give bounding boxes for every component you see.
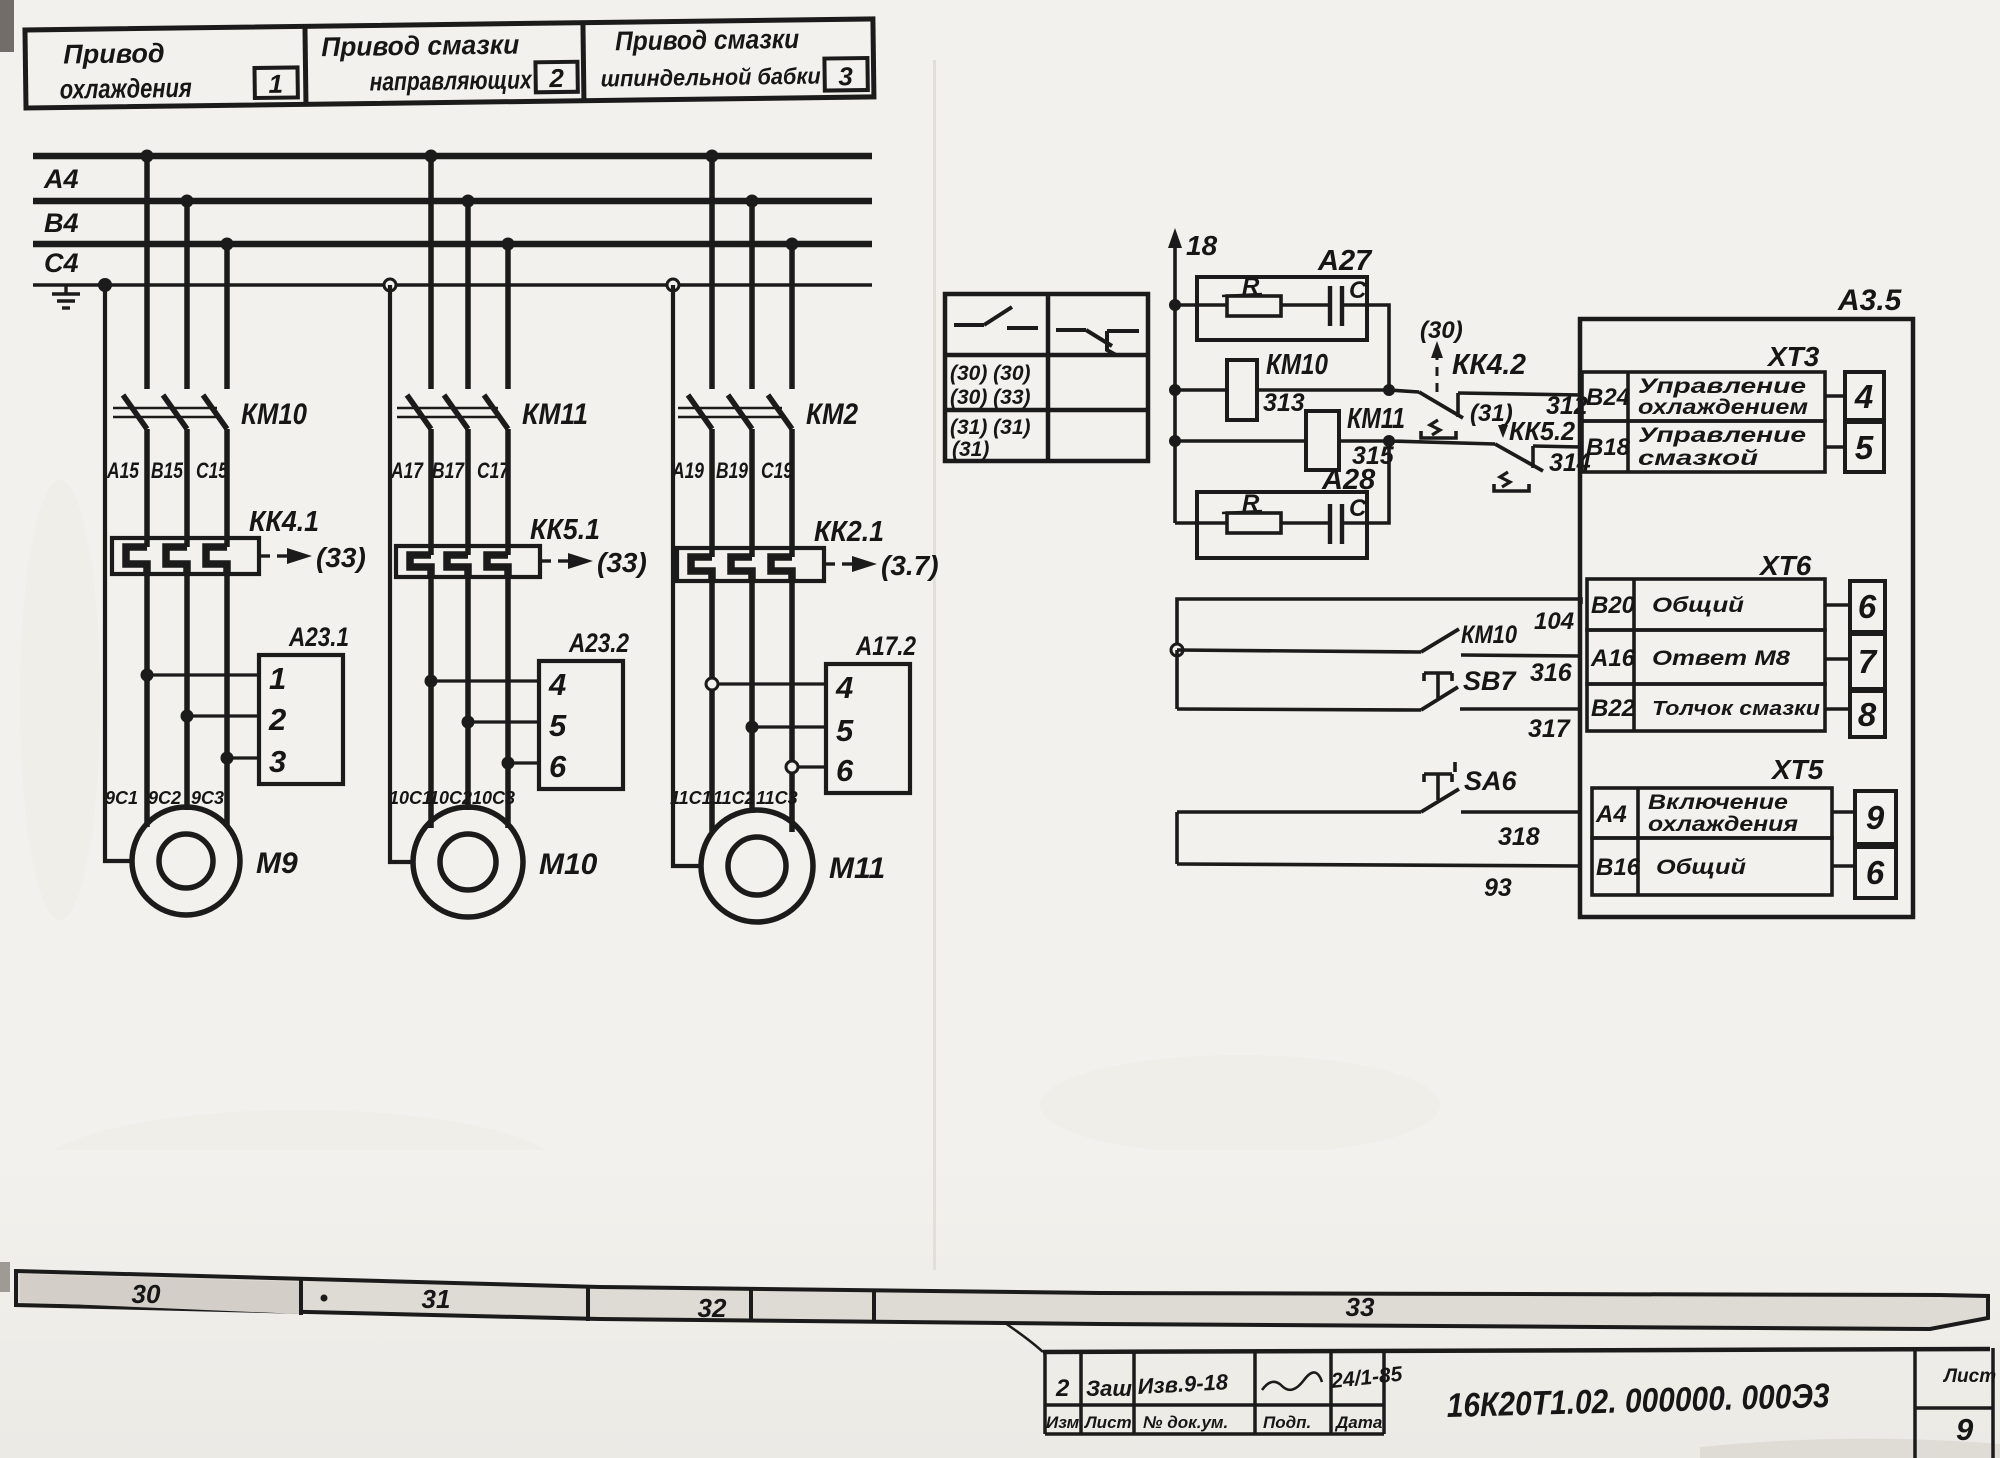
contact KK5.2 blade — [1495, 444, 1543, 471]
svg-text:Включение: Включение — [1648, 791, 1788, 814]
svg-text:SВ7: SВ7 — [1463, 666, 1518, 696]
svg-text:А28: А28 — [1321, 464, 1376, 496]
wire pole tap to А23.1 pin 1 — [147, 673, 259, 676]
motor М9 inner circle — [159, 834, 213, 888]
svg-text:2: 2 — [1055, 1375, 1070, 1402]
ground bus — [33, 283, 872, 287]
contact KK5.2 thermal release mark — [1500, 472, 1510, 487]
wire contact to overload pole B — [465, 429, 471, 555]
svg-text:смазкой: смазкой — [1638, 447, 1758, 470]
contact KK5.2 fixed post — [1531, 446, 1535, 468]
switch SA6 actuator — [1424, 762, 1455, 800]
A3.5 row А16 — [1587, 630, 1825, 684]
A3.5 row А4 — [1592, 788, 1832, 838]
pushbutton SB7 blade — [1421, 687, 1458, 710]
A3.5 row В24 — [1582, 372, 1825, 421]
ground symbol — [52, 285, 80, 308]
svg-text:10С3: 10С3 — [472, 788, 515, 808]
svg-text:охлаждения: охлаждения — [60, 73, 192, 105]
svg-text:КМ10: КМ10 — [241, 398, 307, 431]
svg-text:(30): (30) — [1420, 317, 1463, 344]
svg-text:В19: В19 — [716, 458, 749, 483]
node ground tap M9 — [98, 278, 112, 292]
svg-text:Лист: Лист — [1942, 1366, 1996, 1387]
svg-text:КМ10: КМ10 — [1461, 621, 1517, 649]
svg-text:КК2.1: КК2.1 — [814, 516, 884, 548]
svg-text:А15: А15 — [106, 458, 139, 483]
bus A4 — [33, 153, 872, 160]
svg-text:Привод смазки: Привод смазки — [615, 24, 800, 56]
reference table NO contact symbol — [954, 307, 1038, 328]
svg-text:(31): (31) — [952, 438, 989, 461]
svg-text:А27: А27 — [1317, 245, 1373, 277]
motor М9 outer circle — [132, 807, 240, 915]
heater element of КК4.1 pole B — [166, 547, 187, 574]
wire КМ11 phase C drop from bus C4 — [505, 244, 511, 389]
node wire18/KM11 — [1169, 435, 1181, 447]
svg-text:КМ2: КМ2 — [806, 398, 858, 431]
svg-text:В4: В4 — [44, 208, 79, 238]
reference table NC thermal contact symbol — [1056, 330, 1139, 355]
capacitor C of A27 — [1330, 286, 1342, 326]
wire pole tap to А17.2 pin 6 — [792, 765, 826, 768]
zone strip band — [16, 1271, 1988, 1329]
svg-text:(31) (31): (31) (31) — [950, 416, 1031, 439]
svg-text:(30) (33): (30) (33) — [950, 386, 1031, 409]
node bus C4 tap for КМ10 — [221, 238, 234, 251]
svg-text:313: 313 — [1263, 389, 1305, 417]
svg-text:А19: А19 — [671, 458, 704, 483]
header cell 3 zone box 3 — [824, 58, 867, 91]
wire 104 to A3.5 B20 — [1177, 599, 1581, 650]
wire A27 right to junction — [1342, 305, 1389, 390]
heater element of КК4.1 pole A — [126, 547, 147, 574]
terminal number box 5 — [1845, 422, 1884, 472]
svg-text:7: 7 — [1858, 643, 1878, 680]
wire overload to motor pole A — [144, 574, 150, 827]
motor М11 inner circle — [728, 837, 786, 895]
svg-text:11С2: 11С2 — [713, 788, 755, 808]
node junction pole/pin 5 — [462, 716, 475, 729]
terminal number box 6 — [1850, 581, 1885, 632]
wire overload to motor pole A — [709, 581, 715, 832]
wire overload to motor pole C — [789, 581, 795, 832]
svg-text:направляющих: направляющих — [369, 64, 533, 96]
svg-text:Ответ М8: Ответ М8 — [1652, 647, 1790, 670]
wire КМ10 phase B drop from bus B4 — [184, 201, 190, 389]
svg-text:А23.2: А23.2 — [568, 628, 629, 658]
svg-text:Управление: Управление — [1638, 375, 1806, 398]
wire 318 to A3.5 A4 — [1461, 810, 1581, 814]
svg-text:9С2: 9С2 — [148, 788, 181, 808]
svg-text:Управление: Управление — [1638, 424, 1806, 447]
wire КМ2 phase B drop from bus B4 — [749, 201, 755, 389]
wire contact to overload pole C — [224, 429, 230, 547]
svg-text:С: С — [1349, 495, 1367, 522]
wire ground drop for М10 — [390, 285, 415, 862]
wire overload to motor pole C — [224, 574, 230, 827]
node bus A4 tap for КМ2 — [706, 150, 719, 163]
terminal number box 6 — [1855, 847, 1896, 898]
wire contact to overload pole B — [184, 429, 190, 547]
wire КМ10 phase A drop from bus A4 — [144, 156, 150, 389]
motor М10 outer circle — [413, 807, 523, 917]
svg-text:33: 33 — [1346, 1292, 1375, 1322]
svg-text:А4: А4 — [1595, 801, 1627, 828]
svg-text:ХТ6: ХТ6 — [1758, 550, 1812, 581]
node junction A28/KM11 row — [1383, 435, 1395, 447]
svg-text:6: 6 — [836, 753, 854, 788]
bus B4 — [33, 198, 872, 205]
node junction pole/pin 6 — [786, 761, 798, 773]
terminal box А17.2 — [826, 664, 910, 793]
wire junction to KK4.2 — [1389, 390, 1419, 392]
wire to SA6 — [1177, 810, 1421, 814]
wire 313 left — [1175, 388, 1227, 392]
contact KK4.2 thermal release mark — [1430, 420, 1440, 435]
resistor R of A27 — [1227, 296, 1281, 316]
RC suppressor block A27 — [1197, 277, 1367, 340]
node bus B4 tap for КМ10 — [181, 195, 194, 208]
wire pole tap to А17.2 pin 4 — [712, 682, 826, 685]
zone divider 32/33a — [749, 1289, 753, 1322]
revision signature — [1262, 1372, 1322, 1390]
svg-text:5: 5 — [549, 708, 567, 743]
wire КМ2 phase C drop from bus C4 — [789, 244, 795, 389]
node bus B4 tap for КМ2 — [746, 195, 759, 208]
A3.5 row В16 — [1592, 838, 1832, 895]
wire contact to overload pole C — [789, 429, 795, 557]
heater element of КК2.1 pole C — [771, 557, 792, 581]
wire 93 to A3.5 B16 — [1177, 864, 1581, 866]
thermal overload relay КК2.1 — [677, 548, 824, 581]
svg-text:Подп.: Подп. — [1263, 1413, 1311, 1432]
svg-text:93: 93 — [1484, 874, 1512, 902]
svg-text:Изв.9-18: Изв.9-18 — [1137, 1369, 1229, 1399]
svg-text:30: 30 — [132, 1279, 161, 1309]
header cell 1 zone box 1 — [254, 67, 297, 98]
svg-text:охлаждения: охлаждения — [1648, 813, 1798, 836]
wire row to terminal 4 — [1825, 394, 1845, 398]
arrow from КК5.1 to sheet (33) — [540, 559, 570, 562]
dashed action line of KK4.2 to (30) — [1436, 352, 1439, 392]
contactor КМ11 main contact blades — [407, 395, 508, 429]
switch SA6 blade — [1421, 789, 1459, 812]
scan crease — [933, 60, 936, 1270]
svg-text:С15: С15 — [196, 458, 229, 483]
node bus A4 tap for КМ11 — [425, 150, 438, 163]
wire pole tap to А23.2 pin 4 — [431, 679, 539, 682]
node junction pole/pin 3 — [221, 752, 234, 765]
title block top line — [1043, 1349, 1990, 1352]
wire 18 vertical feed — [1173, 243, 1177, 523]
svg-text:А4: А4 — [43, 164, 79, 194]
wire to KM10 aux contact — [1177, 650, 1421, 652]
zone strip inner shading — [20, 1274, 300, 1314]
wire ground drop for М9 — [105, 285, 134, 861]
wire bracket vertical — [1175, 650, 1179, 709]
sheet box — [1915, 1348, 1993, 1458]
wire 315 left — [1175, 439, 1306, 443]
node wire18/KM10 — [1169, 384, 1181, 396]
RC suppressor block A28 — [1197, 492, 1367, 558]
svg-text:КК4.1: КК4.1 — [249, 506, 319, 538]
heater element of КК2.1 pole A — [691, 557, 712, 581]
wire contact to overload pole A — [144, 429, 150, 547]
wire A28 row left — [1175, 521, 1227, 525]
contact KM10 aux (NO) blade — [1421, 629, 1459, 652]
svg-text:Общий: Общий — [1652, 594, 1744, 617]
svg-text:4: 4 — [1854, 378, 1873, 415]
svg-text:С19: С19 — [761, 458, 794, 483]
wire row to terminal 9 — [1832, 810, 1855, 814]
mechanical linkage of КМ10 — [113, 408, 217, 417]
wire row to terminal 7 — [1825, 657, 1850, 661]
wire КМ11 phase A drop from bus A4 — [428, 156, 434, 389]
svg-text:4: 4 — [835, 670, 853, 705]
terminal number box 8 — [1850, 691, 1885, 737]
resistor R of A28 — [1227, 513, 1281, 533]
svg-text:Привод смазки: Привод смазки — [321, 30, 520, 63]
capacitor C of A28 — [1330, 504, 1342, 544]
header table frame — [25, 19, 874, 108]
wire contact to overload pole C — [505, 429, 511, 555]
scan artifact corner smudge — [0, 0, 14, 52]
heater element of КК4.1 pole C — [206, 547, 227, 574]
wire overload to motor pole C — [505, 577, 511, 828]
node junction pole/pin 4 — [425, 675, 438, 688]
svg-text:М11: М11 — [829, 852, 885, 885]
svg-text:32: 32 — [698, 1293, 727, 1323]
svg-text:SА6: SА6 — [1464, 766, 1518, 796]
node junction pole/pin 5 — [746, 721, 759, 734]
node bus B4 tap for КМ11 — [462, 195, 475, 208]
wire 317 to A3.5 B22 — [1460, 707, 1581, 711]
svg-text:охлаждением: охлаждением — [1638, 396, 1809, 419]
wire overload to motor pole B — [184, 574, 190, 810]
svg-text:318: 318 — [1498, 823, 1540, 851]
thermal overload relay КК5.1 — [396, 546, 540, 577]
node bus A4 tap for КМ10 — [141, 150, 154, 163]
svg-text:КК5.2: КК5.2 — [1509, 416, 1576, 446]
svg-text:8: 8 — [1858, 696, 1877, 733]
svg-text:шпиндельной бабки: шпиндельной бабки — [600, 63, 820, 92]
motor М10 inner circle — [440, 834, 496, 890]
svg-text:КМ11: КМ11 — [522, 398, 588, 431]
wire A27 row left — [1175, 303, 1227, 307]
wire КМ2 phase A drop from bus A4 — [709, 156, 715, 389]
wire overload to motor pole B — [749, 581, 755, 813]
svg-text:В18: В18 — [1586, 434, 1631, 461]
wire pole tap to А17.2 pin 5 — [752, 725, 826, 728]
svg-text:(30) (30): (30) (30) — [950, 362, 1031, 385]
svg-text:С: С — [1349, 277, 1367, 304]
arrow from КК4.1 to sheet (33) — [259, 554, 289, 557]
wire 315 right — [1339, 439, 1389, 443]
wire pole tap to А23.2 pin 6 — [508, 761, 539, 764]
svg-text:А3.5: А3.5 — [1837, 284, 1903, 317]
heater element of КК2.1 pole B — [731, 557, 752, 581]
svg-text:9С1: 9С1 — [105, 788, 138, 808]
svg-text:Лист: Лист — [1083, 1413, 1132, 1432]
contact KK4.2 blade — [1419, 392, 1463, 418]
node bus C4 tap for КМ11 — [502, 238, 515, 251]
svg-text:А23.1: А23.1 — [288, 622, 349, 652]
heater element of КК5.1 pole A — [410, 555, 431, 577]
thermal overload relay КК4.1 — [112, 538, 259, 574]
svg-text:А17.2: А17.2 — [855, 631, 916, 661]
wire R to C of A28 — [1281, 521, 1330, 525]
wire 316 to A3.5 A16 — [1461, 655, 1581, 656]
svg-text:6: 6 — [1866, 854, 1885, 891]
wire pole tap to А23.1 pin 3 — [227, 756, 259, 759]
pushbutton SB7 actuator — [1424, 673, 1452, 698]
arrow up of wire 18 — [1168, 228, 1182, 248]
coil KM10 — [1227, 360, 1257, 420]
zone divider 33 — [872, 1291, 876, 1323]
node left bracket junction — [1171, 644, 1183, 656]
svg-text:4: 4 — [548, 667, 566, 702]
svg-text:Дата: Дата — [1334, 1413, 1382, 1432]
svg-text:М10: М10 — [539, 848, 598, 881]
reference table frame — [945, 294, 1148, 461]
svg-text:31: 31 — [422, 1284, 451, 1314]
wire contact to overload pole B — [749, 429, 755, 557]
svg-text:А16: А16 — [1590, 645, 1636, 672]
svg-text:(3.7): (3.7) — [881, 550, 939, 581]
svg-text:В16: В16 — [1596, 854, 1641, 881]
node junction A27/KM10 row — [1383, 384, 1395, 396]
svg-text:1: 1 — [268, 69, 283, 99]
terminal box А23.1 — [259, 655, 343, 784]
node junction pole/pin 1 — [141, 669, 154, 682]
node ground tap M11 — [667, 279, 679, 291]
svg-text:317: 317 — [1528, 715, 1571, 743]
wire 312 to A3.5 B24 — [1458, 393, 1581, 395]
A3.5 row В20 — [1587, 579, 1825, 630]
svg-text:М9: М9 — [256, 847, 298, 880]
svg-text:Изм.: Изм. — [1046, 1413, 1084, 1432]
device box A3.5 — [1580, 319, 1913, 917]
svg-text:9С3: 9С3 — [191, 788, 224, 808]
node junction pole/pin 6 — [502, 757, 515, 770]
arrow from КК2.1 to sheet (3.7) — [824, 562, 854, 565]
svg-text:1: 1 — [269, 661, 286, 696]
svg-text:5: 5 — [836, 713, 854, 748]
wire row to terminal 5 — [1825, 445, 1845, 449]
node wire18/A27 — [1169, 299, 1181, 311]
svg-text:КК5.1: КК5.1 — [530, 514, 600, 546]
wire 314 to A3.5 B18 — [1533, 446, 1581, 447]
svg-text:11С3: 11С3 — [756, 788, 798, 808]
coil KM11 — [1306, 411, 1339, 470]
action arrow (31) of KK5.2 — [1502, 424, 1505, 430]
svg-text:2: 2 — [268, 702, 286, 737]
wire junction to KK5.2 — [1389, 441, 1495, 444]
svg-text:5: 5 — [1855, 429, 1874, 466]
svg-text:В20: В20 — [1591, 592, 1636, 619]
connector line strip to title block — [1005, 1323, 1043, 1352]
wire row to terminal 6 — [1825, 603, 1850, 607]
svg-text:11С1: 11С1 — [670, 788, 712, 808]
mark dot between zones — [321, 1295, 328, 1302]
wire КМ10 phase C drop from bus C4 — [224, 244, 230, 389]
wire bracket vertical SA6 group — [1175, 812, 1179, 864]
scan texture blobs — [20, 480, 1440, 1370]
svg-text:104: 104 — [1534, 608, 1574, 635]
svg-text:ХТ5: ХТ5 — [1770, 754, 1824, 785]
scan artifact bottom right shade — [1700, 1439, 2000, 1458]
svg-text:3: 3 — [269, 744, 286, 779]
wire КМ11 phase B drop from bus B4 — [465, 201, 471, 389]
svg-text:ХТ3: ХТ3 — [1766, 341, 1820, 372]
svg-text:Заш: Заш — [1086, 1376, 1132, 1401]
svg-text:Общий: Общий — [1656, 856, 1746, 879]
svg-text:9: 9 — [1956, 1412, 1974, 1447]
wire contact to overload pole A — [428, 429, 434, 555]
mechanical linkage of КМ11 — [397, 408, 498, 417]
svg-text:(33): (33) — [316, 542, 366, 573]
svg-text:Привод: Привод — [63, 38, 165, 69]
wire R to C of A27 — [1281, 303, 1330, 307]
svg-text:Толчок смазки: Толчок смазки — [1652, 698, 1820, 720]
contactor КМ10 main contact blades — [123, 395, 227, 429]
svg-text:3: 3 — [838, 61, 853, 91]
svg-text:(31): (31) — [1470, 400, 1513, 427]
svg-text:КМ10: КМ10 — [1266, 349, 1328, 381]
wire pole tap to А23.2 pin 5 — [468, 720, 539, 723]
svg-text:КМ11: КМ11 — [1347, 403, 1405, 435]
wire A28 right up to junction — [1342, 441, 1389, 523]
svg-text:2: 2 — [548, 63, 564, 93]
zone divider 30/31 — [299, 1280, 303, 1315]
header cell 2 zone box 2 — [535, 62, 577, 93]
svg-text:316: 316 — [1530, 659, 1573, 687]
svg-text:6: 6 — [1858, 588, 1877, 625]
svg-text:В17: В17 — [432, 458, 465, 483]
wire 313 right — [1257, 388, 1389, 392]
terminal box А23.2 — [539, 661, 623, 789]
terminal number box 7 — [1850, 634, 1885, 689]
svg-text:9: 9 — [1866, 799, 1885, 836]
wire row to terminal 6 — [1832, 864, 1855, 868]
wire pole tap to А23.1 pin 2 — [187, 714, 259, 717]
svg-text:С4: С4 — [44, 248, 79, 278]
svg-text:(33): (33) — [597, 547, 647, 578]
svg-text:КК4.2: КК4.2 — [1452, 349, 1526, 381]
bus C4 — [33, 241, 872, 248]
heater element of КК5.1 pole B — [447, 555, 468, 577]
wire ground drop for М11 — [673, 285, 703, 866]
svg-text:В15: В15 — [151, 458, 184, 483]
wire overload to motor pole A — [428, 577, 434, 828]
svg-text:10С1: 10С1 — [389, 788, 432, 808]
svg-text:В24: В24 — [1586, 384, 1630, 411]
node junction pole/pin 2 — [181, 710, 194, 723]
A3.5 row В18 — [1582, 421, 1825, 472]
svg-text:№ док.ум.: № док.ум. — [1143, 1413, 1228, 1432]
node junction pole/pin 4 — [706, 678, 718, 690]
zone divider 31/32 — [586, 1287, 590, 1321]
svg-text:18: 18 — [1186, 230, 1218, 261]
svg-text:В22: В22 — [1591, 695, 1636, 722]
wire to SB7 — [1177, 709, 1421, 710]
title block revision table — [1045, 1352, 1384, 1434]
scan artifact left strip mark — [0, 1262, 10, 1292]
heater element of КК5.1 pole C — [487, 555, 508, 577]
wire overload to motor pole B — [465, 577, 471, 810]
mechanical linkage of КМ2 — [678, 408, 782, 417]
